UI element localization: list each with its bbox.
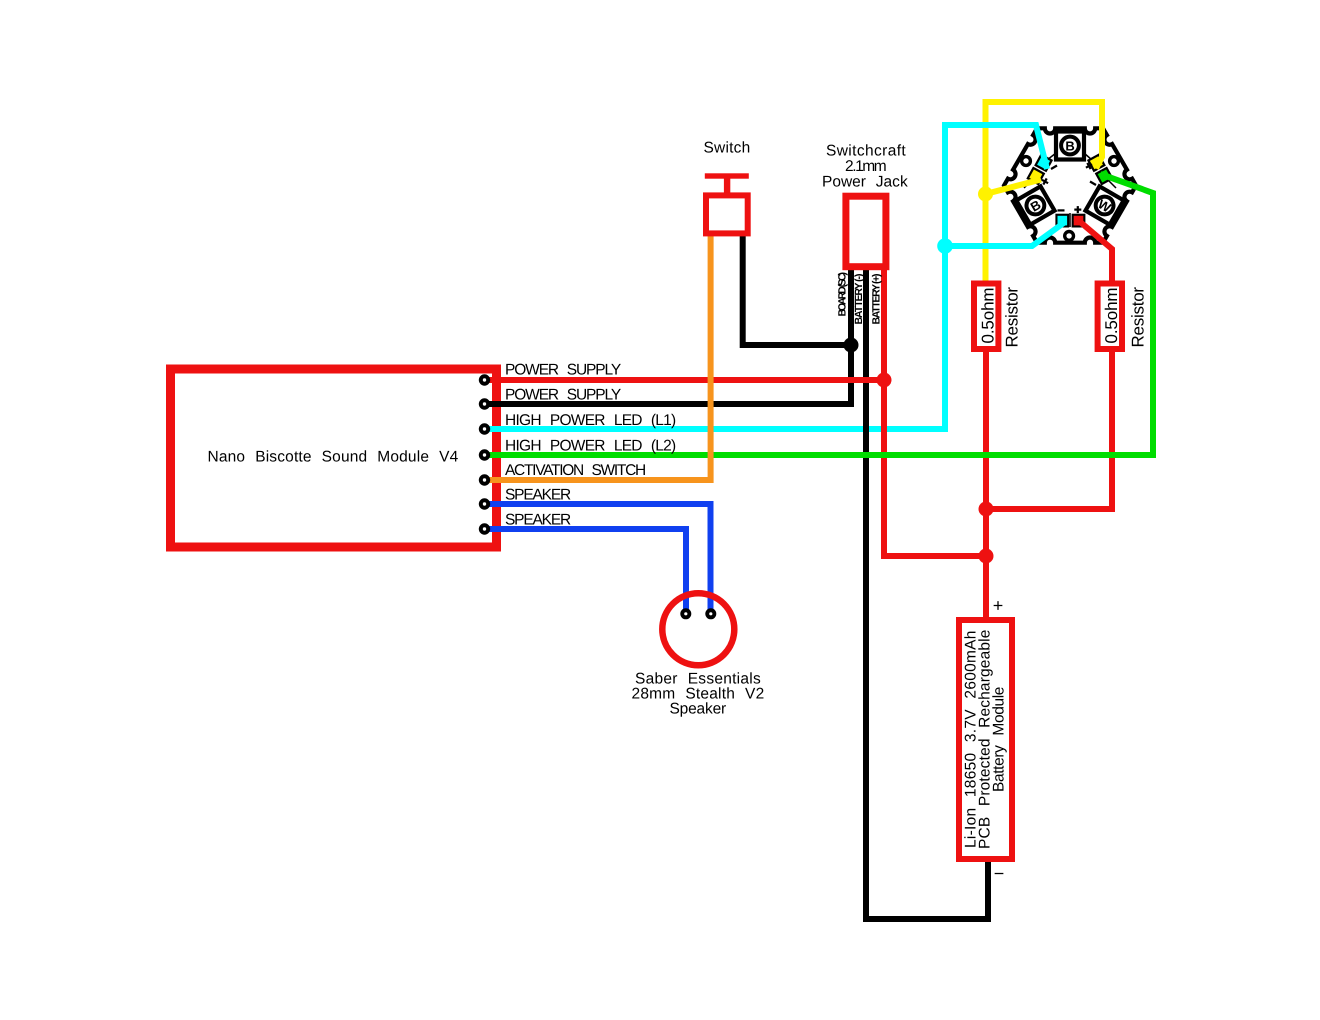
svg-text:+: + [993, 596, 1004, 616]
svg-text:BATTERY (-): BATTERY (-) [853, 274, 865, 325]
wire red jack down to battery junction [884, 270, 986, 556]
module pin 1 [479, 374, 490, 385]
polarity minus mark right [1090, 182, 1096, 186]
junction yellow [978, 187, 993, 202]
module pin 5 [479, 474, 490, 485]
svg-text:BATTERY (+): BATTERY (+) [871, 274, 883, 325]
svg-text:Power Jack: Power Jack [822, 174, 908, 191]
wire black power supply: module to jack BOARD(SC) [485, 270, 852, 404]
svg-text:POWER SUPPLY: POWER SUPPLY [505, 387, 622, 404]
pad P1 colored center [1037, 156, 1050, 169]
svg-text:Resistor: Resistor [1129, 287, 1148, 348]
polarity plus mark left [1040, 177, 1049, 186]
wire yellow branch to left pad [986, 180, 1042, 195]
svg-text:B: B [1065, 138, 1074, 153]
svg-text:POWER SUPPLY: POWER SUPPLY [505, 362, 622, 379]
resistor R2 [1098, 284, 1122, 350]
wire black switch to junction [743, 236, 851, 345]
junction red battery [979, 549, 994, 564]
svg-text:SPEAKER: SPEAKER [505, 512, 572, 529]
speaker pin left [680, 608, 691, 619]
junction cyan [937, 238, 953, 254]
mounting hole bottom [1065, 232, 1074, 241]
pad link line P3 to LED U1 [1084, 153, 1092, 160]
svg-text:SPEAKER: SPEAKER [505, 487, 572, 504]
svg-text:HIGH POWER LED (L1): HIGH POWER LED (L1) [505, 412, 677, 429]
wire red resistor2 link [986, 352, 1112, 509]
module pin 4 [479, 449, 490, 460]
resistor R1 [974, 284, 998, 350]
polarity plus mark bottom [1074, 206, 1081, 213]
svg-text:HIGH POWER LED (L2): HIGH POWER LED (L2) [505, 438, 677, 455]
power jack J1 [846, 196, 886, 267]
svg-text:0.5ohm: 0.5ohm [979, 287, 998, 344]
svg-text:Switchcraft: Switchcraft [826, 143, 906, 160]
wire cyan branch to bottom pad [945, 222, 1065, 246]
polarity minus mark bottom [1058, 209, 1065, 211]
junction red link [979, 502, 994, 517]
polarity marks [1040, 161, 1096, 213]
LED star PCB hexagon board [1004, 128, 1136, 242]
svg-text:Resistor: Resistor [1003, 287, 1022, 348]
mounting hole right [1110, 157, 1119, 166]
module box (Nano Biscotte) [171, 369, 497, 547]
speaker SP1 [662, 593, 734, 665]
pad P6 (bottom plus, red wire) [1072, 214, 1086, 228]
wire green L2: module to star [485, 174, 1154, 455]
junction red jack [877, 373, 892, 388]
wire red star pad to resistor2 [1076, 218, 1113, 283]
pad P1 (top-left minus, cyan wire) [1034, 153, 1053, 172]
polarity minus mark top-left [1051, 166, 1057, 170]
svg-text:0.5ohm: 0.5ohm [1102, 287, 1121, 344]
LED U1 (B top) package [1056, 132, 1084, 160]
module pin 2 [479, 398, 490, 409]
pad P3 (top-right plus, yellow wire) [1087, 153, 1106, 172]
wire yellow: resistor1 up and to star pads [986, 102, 1103, 283]
wire red power supply: module to jack battery(+) [485, 377, 885, 383]
pad P5 (bottom minus, cyan wire) [1055, 214, 1069, 228]
wire orange activation switch [485, 236, 711, 480]
junction black [844, 338, 859, 353]
pad P6 colored center [1074, 216, 1084, 226]
wire black battery(-): jack to battery bottom [866, 270, 988, 919]
pad P2 colored center [1029, 169, 1042, 182]
wire cyan L1: module to star [485, 125, 1048, 429]
svg-text:Battery Module: Battery Module [991, 686, 1008, 792]
mounting hole left [1022, 157, 1031, 166]
svg-text:Speaker: Speaker [670, 700, 727, 717]
wire blue speaker 2 [485, 529, 687, 614]
pad P4 colored center [1098, 169, 1111, 182]
polarity plus mark top-right [1084, 161, 1093, 170]
pad P3 colored center [1090, 156, 1103, 169]
wire blue speaker 1 [485, 504, 711, 614]
switch S1 [705, 173, 749, 233]
LED U3 (W right) package [1085, 186, 1123, 224]
module pin 7 [479, 523, 490, 534]
module pin 3 [479, 423, 490, 434]
pad link line P2 to LED U2 [1024, 181, 1031, 188]
svg-text:Nano Biscotte Sound Module V4: Nano Biscotte Sound Module V4 [208, 449, 459, 466]
pad P2 (left plus, yellow wire) [1026, 167, 1045, 186]
module pin 6 [479, 498, 490, 509]
pad link line P4 to LED U3 [1109, 181, 1116, 188]
LED U2 (B left) package [1016, 186, 1054, 224]
svg-text:2.1mm: 2.1mm [845, 158, 887, 175]
pad P4 (right minus, green wire) [1095, 167, 1114, 186]
pad separator line P5/P6 [1069, 213, 1071, 227]
svg-text:ACTIVATION SWITCH: ACTIVATION SWITCH [505, 462, 647, 479]
svg-text:BOARD (SC): BOARD (SC) [837, 272, 849, 317]
wire red resistor1 to battery + [983, 352, 989, 617]
star pads [1026, 153, 1113, 227]
svg-text:−: − [994, 864, 1005, 884]
pad P5 colored center [1058, 216, 1068, 226]
speaker pin right [705, 608, 716, 619]
battery module B1 [959, 620, 1012, 859]
svg-text:Switch: Switch [704, 140, 751, 157]
pad link line P1 to LED U1 [1047, 153, 1056, 160]
